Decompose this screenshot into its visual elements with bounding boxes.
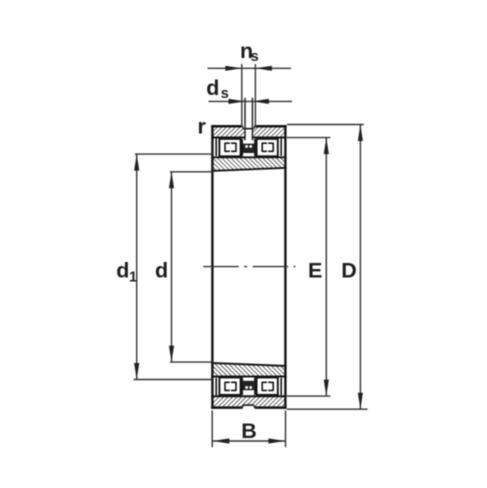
svg-text:D: D — [341, 258, 357, 282]
svg-text:r: r — [198, 115, 207, 139]
svg-text:d: d — [155, 258, 168, 282]
svg-text:d: d — [116, 258, 129, 282]
svg-text:E: E — [308, 258, 322, 282]
svg-text:d: d — [206, 76, 219, 100]
svg-text:s: s — [251, 49, 259, 65]
svg-text:s: s — [221, 86, 229, 102]
svg-text:1: 1 — [129, 269, 137, 285]
svg-text:B: B — [241, 419, 257, 443]
